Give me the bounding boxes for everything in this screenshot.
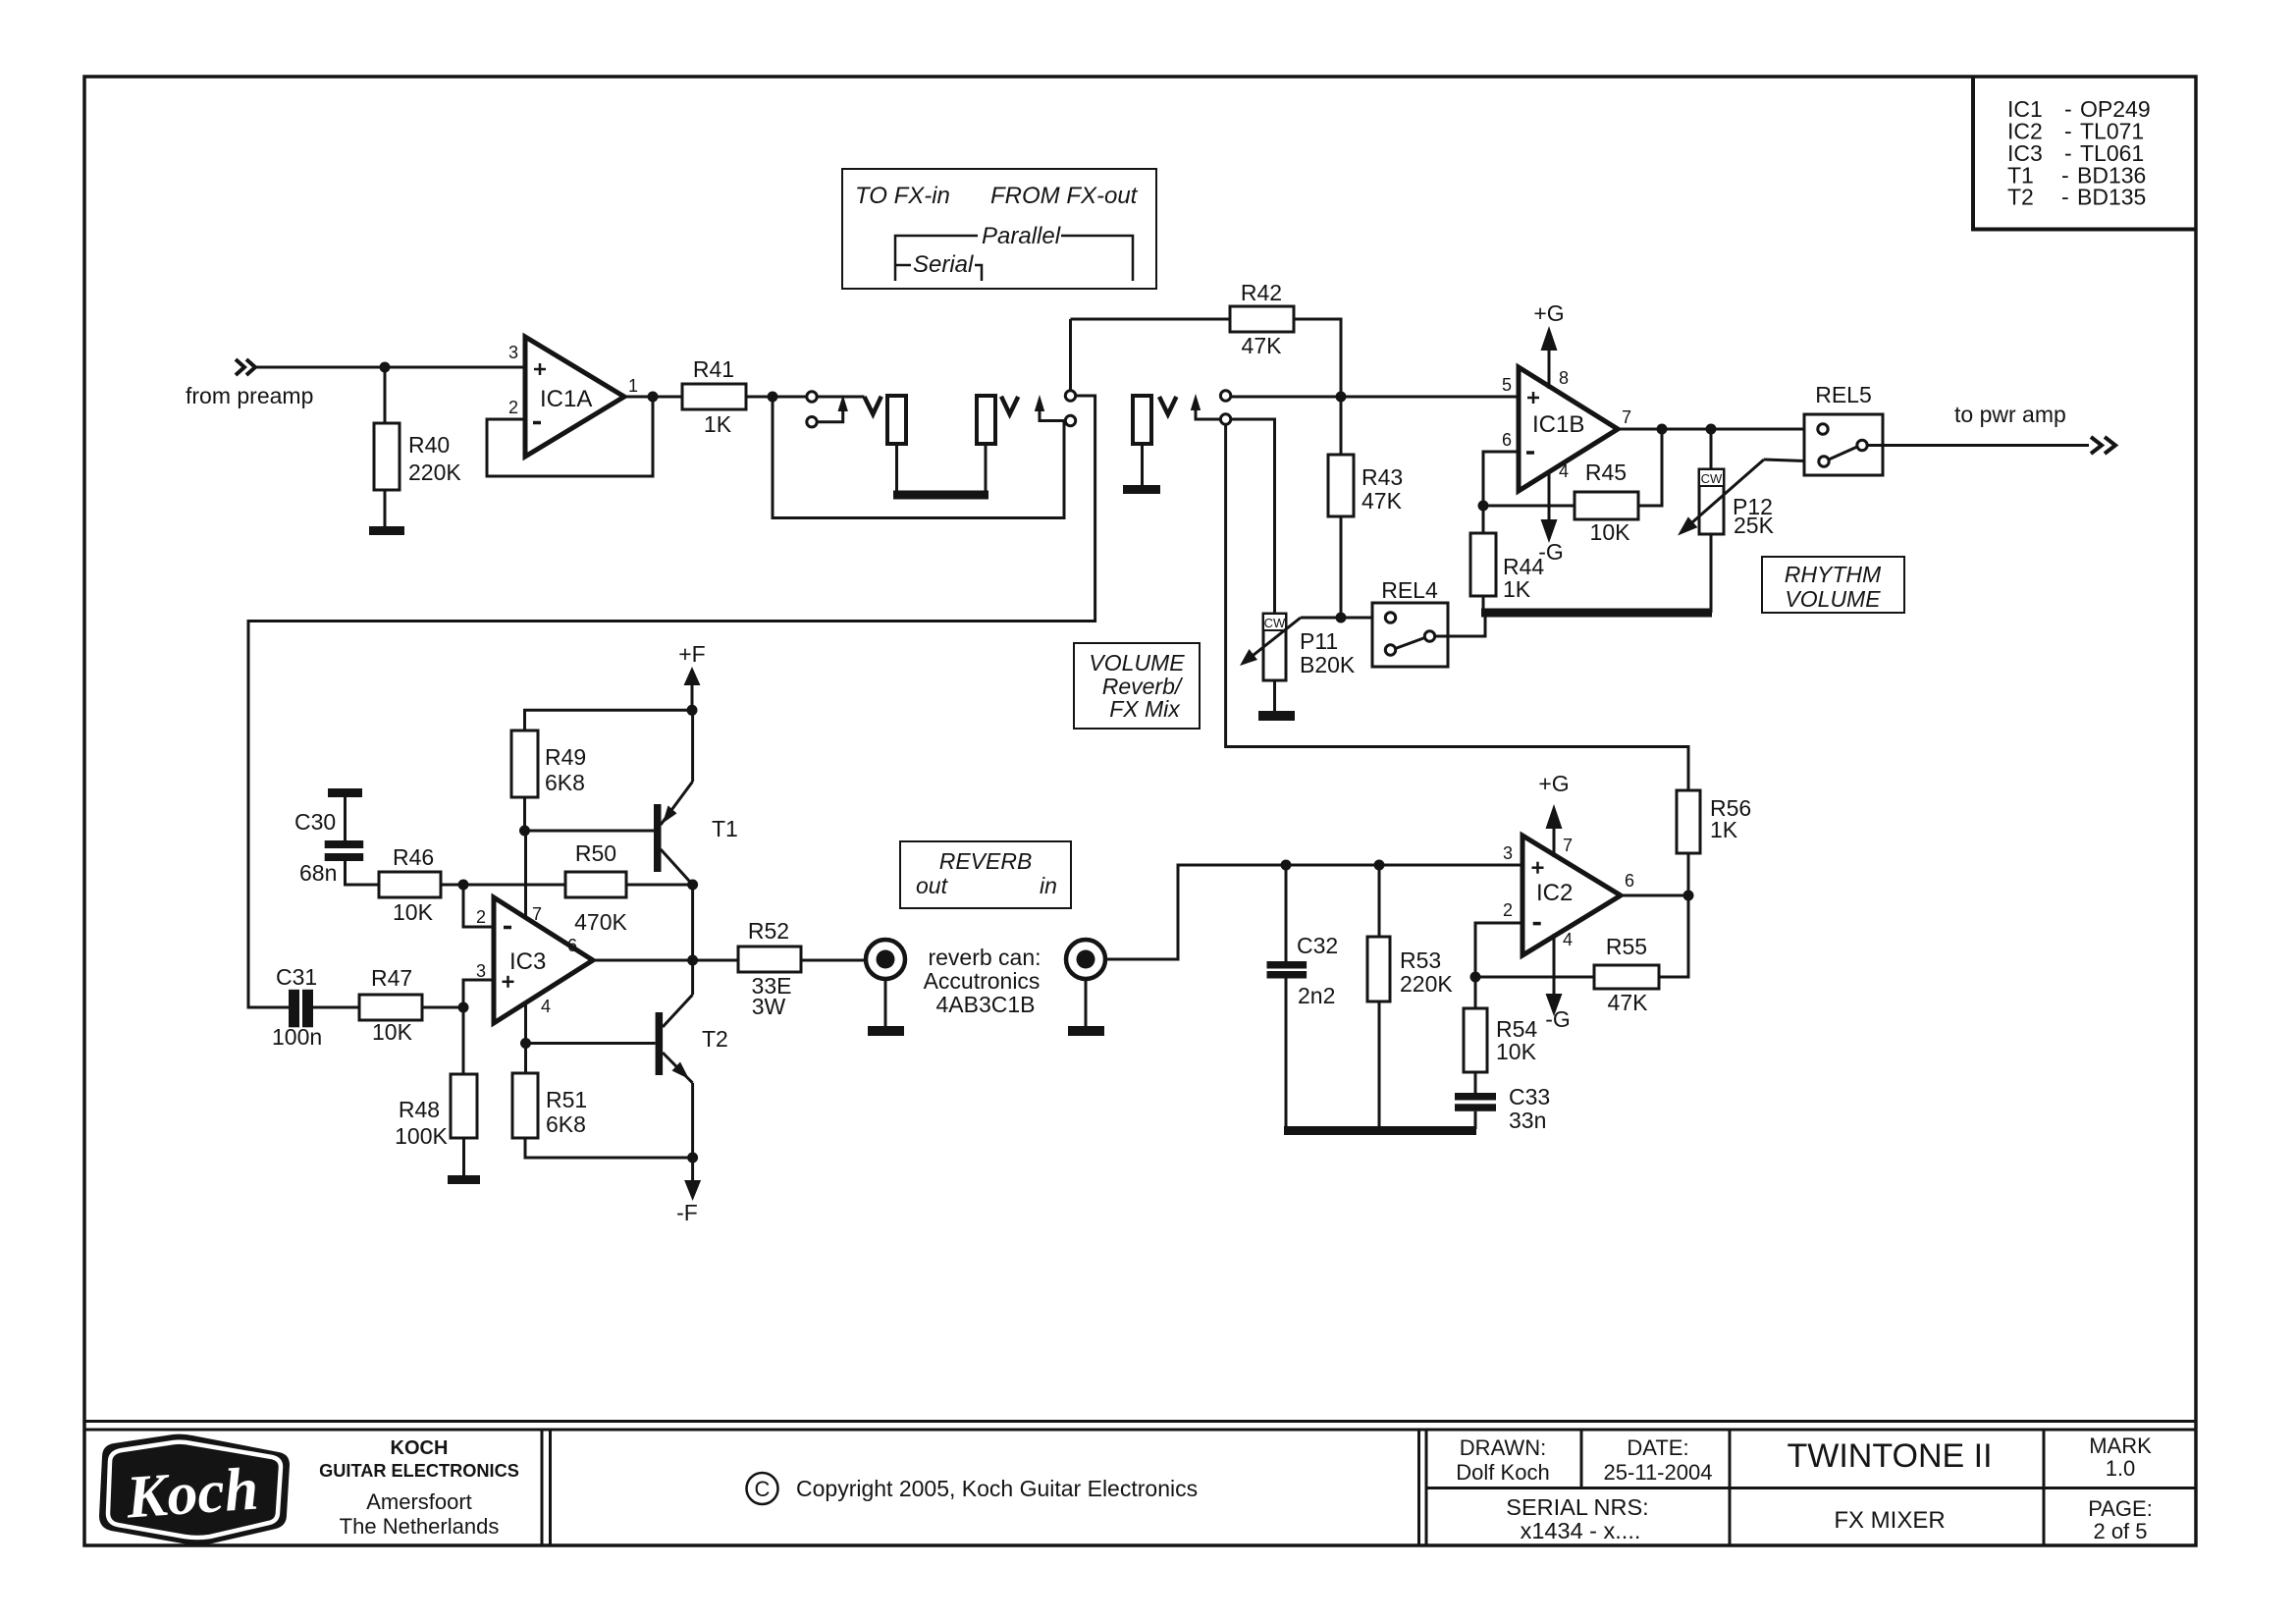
resistor R42 — [1230, 306, 1294, 332]
node R42 R43 pin5 junction — [1336, 392, 1347, 403]
parts list text T1 - BD136 — [2007, 162, 2146, 188]
svg-text:R55: R55 — [1606, 934, 1647, 959]
pin 7 label IC2 — [1563, 836, 1573, 855]
svg-text:R46: R46 — [393, 844, 434, 870]
svg-text:R43: R43 — [1362, 464, 1403, 490]
pin 2 label IC2 — [1503, 900, 1513, 920]
wire node to C32 — [1285, 865, 1288, 961]
node C32 junction — [1281, 860, 1292, 871]
label C33 33n — [1509, 1084, 1550, 1133]
pin 4 power stub — [524, 1003, 527, 1044]
op-amp IC3 — [494, 897, 593, 1023]
label IC1B — [1532, 411, 1584, 438]
svg-text:C31: C31 — [276, 964, 317, 990]
power arrow -G IC2 — [1553, 934, 1556, 994]
parts list text T2 - BD135 — [2007, 185, 2146, 210]
svg-text:IC1A: IC1A — [540, 386, 592, 412]
node +F junction — [687, 705, 698, 716]
resistor R40 — [374, 423, 400, 490]
pin 4 label IC2 — [1563, 930, 1573, 949]
resistor R55 — [1594, 965, 1659, 989]
wire R56 to output node — [1687, 853, 1690, 895]
svg-text:-G: -G — [1545, 1006, 1571, 1032]
node IC3 pin3 junction — [458, 1002, 469, 1013]
wire node to IC3 pin2 — [463, 885, 494, 927]
node T1 base junction — [519, 826, 530, 837]
ground under R48 — [448, 1175, 480, 1184]
wire jack2 top contact to R42 drop — [1069, 319, 1072, 391]
P12 CW marker — [1699, 469, 1724, 486]
parallel bracket — [895, 236, 1133, 281]
wire IC1A feedback loop — [487, 397, 653, 476]
wire junction to R40 — [384, 367, 387, 423]
resistor R54 — [1464, 1008, 1487, 1072]
ground under jack3 — [1123, 485, 1160, 494]
power arrow +F — [691, 685, 694, 710]
REL5 switch arm — [1829, 447, 1857, 460]
label R47 10K — [371, 965, 413, 1045]
label R56 1K — [1710, 795, 1751, 842]
svg-text:REVERB: REVERB — [939, 848, 1033, 874]
svg-text:C33: C33 — [1509, 1084, 1550, 1109]
node IC1A output junction — [648, 392, 659, 403]
node -F junction — [687, 1153, 698, 1163]
title text SERIAL NRS — [1506, 1494, 1648, 1543]
shorting link bar between send and return jacks — [893, 491, 988, 500]
svg-text:C: C — [755, 1477, 771, 1501]
svg-text:100n: 100n — [272, 1024, 322, 1050]
svg-text:VOLUME: VOLUME — [1785, 586, 1881, 612]
power pin8 +G — [1548, 351, 1551, 389]
wire R49 to T1 base node — [523, 797, 526, 831]
RCA jack reverb out — [866, 940, 905, 979]
ground under R40 — [369, 526, 404, 535]
wire jack3 lower contact to P11 top — [1231, 419, 1275, 614]
annotation box VOLUME Reverb FX Mix — [1074, 643, 1200, 729]
wire R42 left — [1071, 318, 1231, 321]
resistor R50 — [565, 872, 626, 897]
wire RCA in to ground — [1085, 979, 1088, 1027]
svg-text:1K: 1K — [1503, 576, 1531, 602]
resistor R46 — [379, 872, 441, 897]
svg-text:5: 5 — [1502, 375, 1512, 395]
svg-text:6K8: 6K8 — [546, 1111, 586, 1137]
label REL5 — [1815, 382, 1872, 407]
wire R46 to R50 — [441, 884, 565, 887]
pin 2 label — [508, 398, 518, 417]
pin 1 label — [628, 376, 638, 396]
wire IC3 output — [593, 959, 738, 962]
P11 CW marker — [1263, 614, 1286, 630]
wire jack1 body to shorting bar — [895, 444, 898, 494]
label R45 10K — [1585, 460, 1630, 545]
wire R53 to bus — [1378, 1001, 1381, 1129]
svg-text:2: 2 — [508, 398, 518, 417]
wire RCA in to IC2 input — [1105, 865, 1522, 959]
pin 4 label IC1B — [1559, 461, 1569, 481]
svg-text:68n: 68n — [299, 860, 337, 886]
wire input to IC1A pin3 — [253, 366, 525, 369]
label R41 1K — [693, 356, 734, 437]
svg-text:FROM FX-out: FROM FX-out — [990, 183, 1139, 209]
svg-text:47K: 47K — [1608, 990, 1649, 1015]
svg-text:25-11-2004: 25-11-2004 — [1604, 1460, 1713, 1485]
svg-text:R45: R45 — [1585, 460, 1627, 485]
wire R48 to ground — [462, 1138, 465, 1176]
jack J1 TO FX-in: switch contact circles — [807, 392, 817, 427]
title divider date twintone — [1729, 1430, 1732, 1545]
title text Amersfoort The Netherlands — [340, 1489, 500, 1539]
svg-text:8: 8 — [1559, 368, 1569, 388]
node P12 output junction — [1706, 424, 1717, 435]
label to pwr amp — [1954, 402, 2066, 427]
svg-text:6: 6 — [567, 936, 577, 955]
svg-text:10K: 10K — [1590, 519, 1631, 545]
svg-text:SERIAL NRS:: SERIAL NRS: — [1506, 1494, 1648, 1520]
svg-text:REL5: REL5 — [1815, 382, 1872, 407]
wire node to P12 top — [1710, 429, 1713, 469]
svg-text:FX Mix: FX Mix — [1109, 696, 1181, 722]
wire node to R53 — [1378, 865, 1381, 937]
capacitor C33 — [1455, 1093, 1496, 1111]
wire node to IC3 pin3 — [463, 980, 494, 1007]
svg-text:Parallel: Parallel — [982, 223, 1061, 249]
pin 7 power stub — [524, 831, 527, 918]
parts list text IC2 - TL071 — [2007, 119, 2144, 144]
pin 6 label IC3 — [567, 936, 577, 955]
wire REL4 to ground bus — [1435, 617, 1485, 636]
plus sign IC1A — [534, 363, 546, 375]
svg-text:reverb can:: reverb can: — [928, 945, 1041, 970]
label R48 100K — [395, 1097, 448, 1149]
wire jack1 top contact to tip spring — [818, 396, 865, 399]
capacitor C31 — [289, 990, 313, 1028]
label R54 10K — [1496, 1016, 1537, 1064]
pin 3 label IC2 — [1503, 843, 1513, 863]
node R44 R45 pin6 junction — [1478, 501, 1489, 512]
svg-text:CW: CW — [1701, 471, 1723, 486]
svg-text:+F: +F — [678, 641, 705, 667]
RCA jack reverb in — [1066, 940, 1105, 979]
svg-text:-F: -F — [676, 1200, 698, 1225]
label IC2 — [1536, 880, 1573, 906]
svg-text:R48: R48 — [399, 1097, 440, 1122]
svg-text:R41: R41 — [693, 356, 734, 382]
svg-text:BD135: BD135 — [2077, 185, 2146, 210]
wire node to R44 — [1482, 506, 1485, 533]
label P11 B20K — [1300, 628, 1356, 677]
svg-text:Dolf Koch: Dolf Koch — [1456, 1460, 1549, 1485]
jack J1 switch arm wire and arrow — [818, 409, 843, 422]
power pin4 -G — [1548, 472, 1551, 519]
wire R47 to node — [422, 1006, 463, 1009]
op-amp IC1B — [1519, 367, 1618, 491]
node R53 junction — [1374, 860, 1385, 871]
svg-text:220K: 220K — [1400, 971, 1453, 997]
wire REL5 to power amp — [1867, 444, 2089, 447]
jack J2 switch arm wire and arrow — [1040, 409, 1065, 421]
label R53 220K — [1400, 947, 1453, 997]
pin 7 label — [1622, 407, 1631, 427]
svg-text:R42: R42 — [1241, 280, 1282, 305]
wire jack3 lower contact down to R56 feed — [1226, 424, 1688, 790]
title text DATE 25-11-2004 — [1604, 1435, 1713, 1485]
label R46 10K — [393, 844, 434, 925]
wire node to R51 — [524, 1044, 527, 1074]
wire +F rail to R49 — [525, 710, 693, 730]
svg-text:The Netherlands: The Netherlands — [340, 1514, 500, 1539]
jack J3 switch arm wire and arrow — [1196, 408, 1220, 419]
annotation box RHYTHM VOLUME — [1762, 557, 1904, 613]
svg-text:DRAWN:: DRAWN: — [1460, 1435, 1546, 1460]
wire jack3 body to ground — [1141, 444, 1144, 486]
svg-text:TWINTONE II: TWINTONE II — [1787, 1437, 1992, 1475]
label from preamp — [186, 383, 313, 408]
node IC3 pin2 junction — [458, 880, 469, 891]
resistor R47 — [359, 995, 422, 1020]
svg-text:DATE:: DATE: — [1627, 1435, 1688, 1460]
wire R41 to jack1 — [746, 396, 807, 399]
label R49 6K8 — [545, 744, 586, 795]
wire RCA out to ground — [884, 979, 887, 1027]
label R50 470K — [574, 840, 627, 935]
wire bus to P12 bottom — [1710, 534, 1713, 613]
minus sign IC1B — [1526, 451, 1534, 455]
svg-text:7: 7 — [532, 904, 542, 924]
svg-text:2: 2 — [476, 907, 486, 927]
title divider logo right double — [542, 1430, 551, 1545]
label IC3 — [509, 948, 546, 975]
wire C32 to bus — [1285, 979, 1288, 1130]
svg-text:220K: 220K — [408, 460, 461, 485]
pin 6 label IC2 — [1625, 871, 1634, 891]
svg-text:Copyright 2005, Koch Guitar El: Copyright 2005, Koch Guitar Electronics — [796, 1476, 1198, 1501]
wire jack2 top contact to reverb send — [248, 396, 1095, 1007]
svg-text:-: - — [2061, 185, 2069, 210]
node T1 collector junction — [687, 880, 698, 891]
svg-text:+G: +G — [1538, 771, 1569, 796]
pin 6 label — [1502, 430, 1512, 450]
label IC1A — [540, 386, 592, 412]
output terminal chevrons — [2091, 437, 2115, 454]
wire IC1A output — [624, 396, 682, 399]
svg-text:4: 4 — [541, 997, 551, 1016]
label R44 1K — [1503, 554, 1544, 602]
svg-text:RHYTHM: RHYTHM — [1785, 562, 1882, 587]
power arrow +G IC2 — [1553, 829, 1556, 857]
svg-text:6: 6 — [1625, 871, 1634, 891]
title text DRAWN Dolf Koch — [1456, 1435, 1549, 1485]
node R54 R55 junction — [1470, 972, 1481, 983]
svg-text:TO FX-in: TO FX-in — [855, 183, 950, 209]
annotation box TO FX-in FROM FX-out — [842, 169, 1156, 289]
copyright symbol — [747, 1473, 778, 1504]
capacitor C30 — [325, 840, 364, 861]
svg-text:R47: R47 — [371, 965, 412, 991]
P12 wiper arrow — [1688, 460, 1764, 526]
transistor T2 — [656, 1012, 664, 1075]
wire jack3 top contact to IC1B pin5 — [1231, 396, 1519, 399]
svg-text:IC2: IC2 — [1536, 880, 1573, 906]
resistor R56 — [1677, 790, 1700, 853]
resistor R48 — [451, 1074, 477, 1138]
wire ground to C30 — [344, 797, 347, 840]
svg-text:R50: R50 — [575, 840, 616, 866]
svg-text:3: 3 — [1503, 843, 1513, 863]
wire C33 to bus — [1474, 1111, 1477, 1129]
svg-text:Koch: Koch — [124, 1455, 261, 1531]
svg-text:MARK: MARK — [2089, 1434, 2152, 1458]
svg-text:10K: 10K — [372, 1019, 413, 1045]
label C30 68n — [294, 809, 337, 886]
copyright text — [796, 1476, 1198, 1501]
capacitor C32 — [1267, 961, 1308, 979]
pin 7 label IC3 — [532, 904, 542, 924]
svg-text:Amersfoort: Amersfoort — [366, 1489, 472, 1514]
label -F — [676, 1200, 698, 1225]
label C31 100n — [272, 964, 322, 1050]
wire node to T1 base — [525, 830, 655, 833]
svg-text:4: 4 — [1563, 930, 1573, 949]
svg-text:P11: P11 — [1300, 628, 1338, 654]
label R55 47K — [1606, 934, 1648, 1015]
ground under P11 — [1258, 711, 1295, 721]
svg-text:Serial: Serial — [913, 251, 974, 278]
label R43 47K — [1362, 464, 1403, 514]
resistor R41 — [682, 384, 746, 409]
label R51 6K8 — [546, 1087, 587, 1137]
wire R45 to output node — [1638, 429, 1662, 506]
title divider twintone mark — [2043, 1430, 2046, 1545]
jack J1 tip spring contact — [865, 397, 881, 414]
power arrow -F — [691, 1158, 694, 1180]
label C32 2n2 — [1297, 933, 1338, 1008]
svg-text:7: 7 — [1622, 407, 1631, 427]
potentiometer P11 body — [1263, 614, 1286, 680]
svg-text:T2: T2 — [702, 1026, 728, 1052]
resistor R53 — [1367, 937, 1390, 1001]
svg-text:from preamp: from preamp — [186, 383, 313, 408]
svg-text:10K: 10K — [1496, 1039, 1537, 1064]
svg-text:33n: 33n — [1509, 1108, 1546, 1133]
svg-text:6K8: 6K8 — [545, 770, 585, 795]
resistor R45 — [1575, 492, 1638, 519]
svg-text:1: 1 — [628, 376, 638, 396]
node IC3 output junction — [687, 955, 698, 966]
wire R44 to bus — [1482, 596, 1485, 613]
wire C31 to R47 — [313, 1006, 359, 1009]
node R45 output junction — [1657, 424, 1668, 435]
svg-text:3W: 3W — [752, 994, 786, 1019]
wire IC1B pin6 to feedback node — [1483, 452, 1519, 506]
transistor T1 — [654, 804, 662, 872]
relay REL4 box — [1372, 603, 1448, 667]
jack J3 switch contact circles — [1220, 391, 1230, 424]
svg-text:R40: R40 — [408, 432, 450, 458]
resistor R43 — [1328, 455, 1354, 516]
title block top double line — [84, 1422, 2196, 1431]
thick ground bus under IC2 — [1284, 1126, 1476, 1135]
svg-text:25K: 25K — [1734, 513, 1775, 538]
resistor R52 — [738, 947, 801, 972]
REL4 contacts — [1385, 613, 1434, 655]
wire node to R55 — [1475, 976, 1594, 979]
wire node to R54 — [1474, 977, 1477, 1008]
svg-text:GUITAR ELECTRONICS: GUITAR ELECTRONICS — [319, 1461, 519, 1481]
svg-text:T1: T1 — [712, 816, 738, 841]
wire R42 right to pin5 node — [1294, 319, 1341, 397]
svg-text:47K: 47K — [1242, 333, 1283, 358]
capacitor C30 ground bar — [328, 788, 362, 797]
wire node to R48 — [462, 1007, 465, 1074]
jack J2 tip spring contact — [1001, 397, 1018, 414]
svg-text:7: 7 — [1563, 836, 1573, 855]
wire node to REL4 — [1341, 617, 1386, 620]
plus sign IC1B — [1527, 392, 1539, 404]
pin 4 label IC3 — [541, 997, 551, 1016]
title text PAGE 2 of 5 — [2088, 1496, 2153, 1543]
svg-text:C30: C30 — [294, 809, 336, 835]
svg-text:T2: T2 — [2007, 185, 2034, 210]
title text KOCH GUITAR ELECTRONICS — [319, 1437, 519, 1481]
svg-text:R52: R52 — [748, 918, 789, 944]
wire IC2 pin2 — [1475, 923, 1522, 977]
ground under RCA out — [868, 1026, 904, 1036]
wire C30 to R46 — [346, 861, 380, 885]
wire R43 to P11 node — [1340, 516, 1343, 618]
minus sign IC3 — [504, 926, 511, 930]
svg-text:to pwr amp: to pwr amp — [1954, 402, 2066, 427]
label REL4 — [1381, 577, 1438, 603]
svg-text:4AB3C1B: 4AB3C1B — [935, 992, 1035, 1017]
svg-text:1.0: 1.0 — [2106, 1456, 2136, 1481]
pin 3 label — [508, 343, 518, 362]
svg-text:100K: 100K — [395, 1123, 448, 1149]
jack J3 tip spring contact — [1159, 397, 1176, 414]
svg-text:R51: R51 — [546, 1087, 587, 1112]
REL5 contacts — [1818, 424, 1867, 466]
pin 3 label IC3 — [476, 961, 486, 981]
plus sign IC3 — [503, 976, 514, 988]
title text MARK 1.0 — [2089, 1434, 2152, 1481]
label R40 220K — [408, 432, 461, 485]
label reverb can Accutronics 4AB3C1B — [924, 945, 1041, 1017]
REL4 switch arm — [1396, 638, 1425, 649]
title text TWINTONE II — [1787, 1437, 1992, 1475]
svg-text:1K: 1K — [1710, 817, 1738, 842]
svg-text:in: in — [1040, 873, 1057, 898]
svg-text:47K: 47K — [1362, 488, 1403, 514]
jack J3 reverb-FX mix body — [1133, 396, 1151, 444]
resistor R49 — [511, 730, 538, 797]
parts list box — [1973, 77, 2196, 230]
wire jack2 body to shorting bar — [985, 444, 988, 494]
svg-text:KOCH: KOCH — [391, 1437, 449, 1459]
jack J1 body — [887, 396, 906, 444]
input terminal chevrons — [236, 359, 255, 375]
svg-text:out: out — [916, 873, 949, 898]
serial bracket — [895, 265, 982, 281]
wire R54 to C33 — [1474, 1072, 1477, 1093]
label P12 25K — [1733, 494, 1775, 538]
annotation box REVERB out in — [900, 841, 1071, 908]
svg-text:x1434 - x....: x1434 - x.... — [1521, 1518, 1641, 1543]
svg-text:4: 4 — [1559, 461, 1569, 481]
wire R52 to RCA out — [801, 959, 865, 962]
minus sign IC1A — [533, 421, 541, 425]
ground under RCA in — [1068, 1026, 1104, 1036]
resistor R51 — [512, 1073, 538, 1138]
